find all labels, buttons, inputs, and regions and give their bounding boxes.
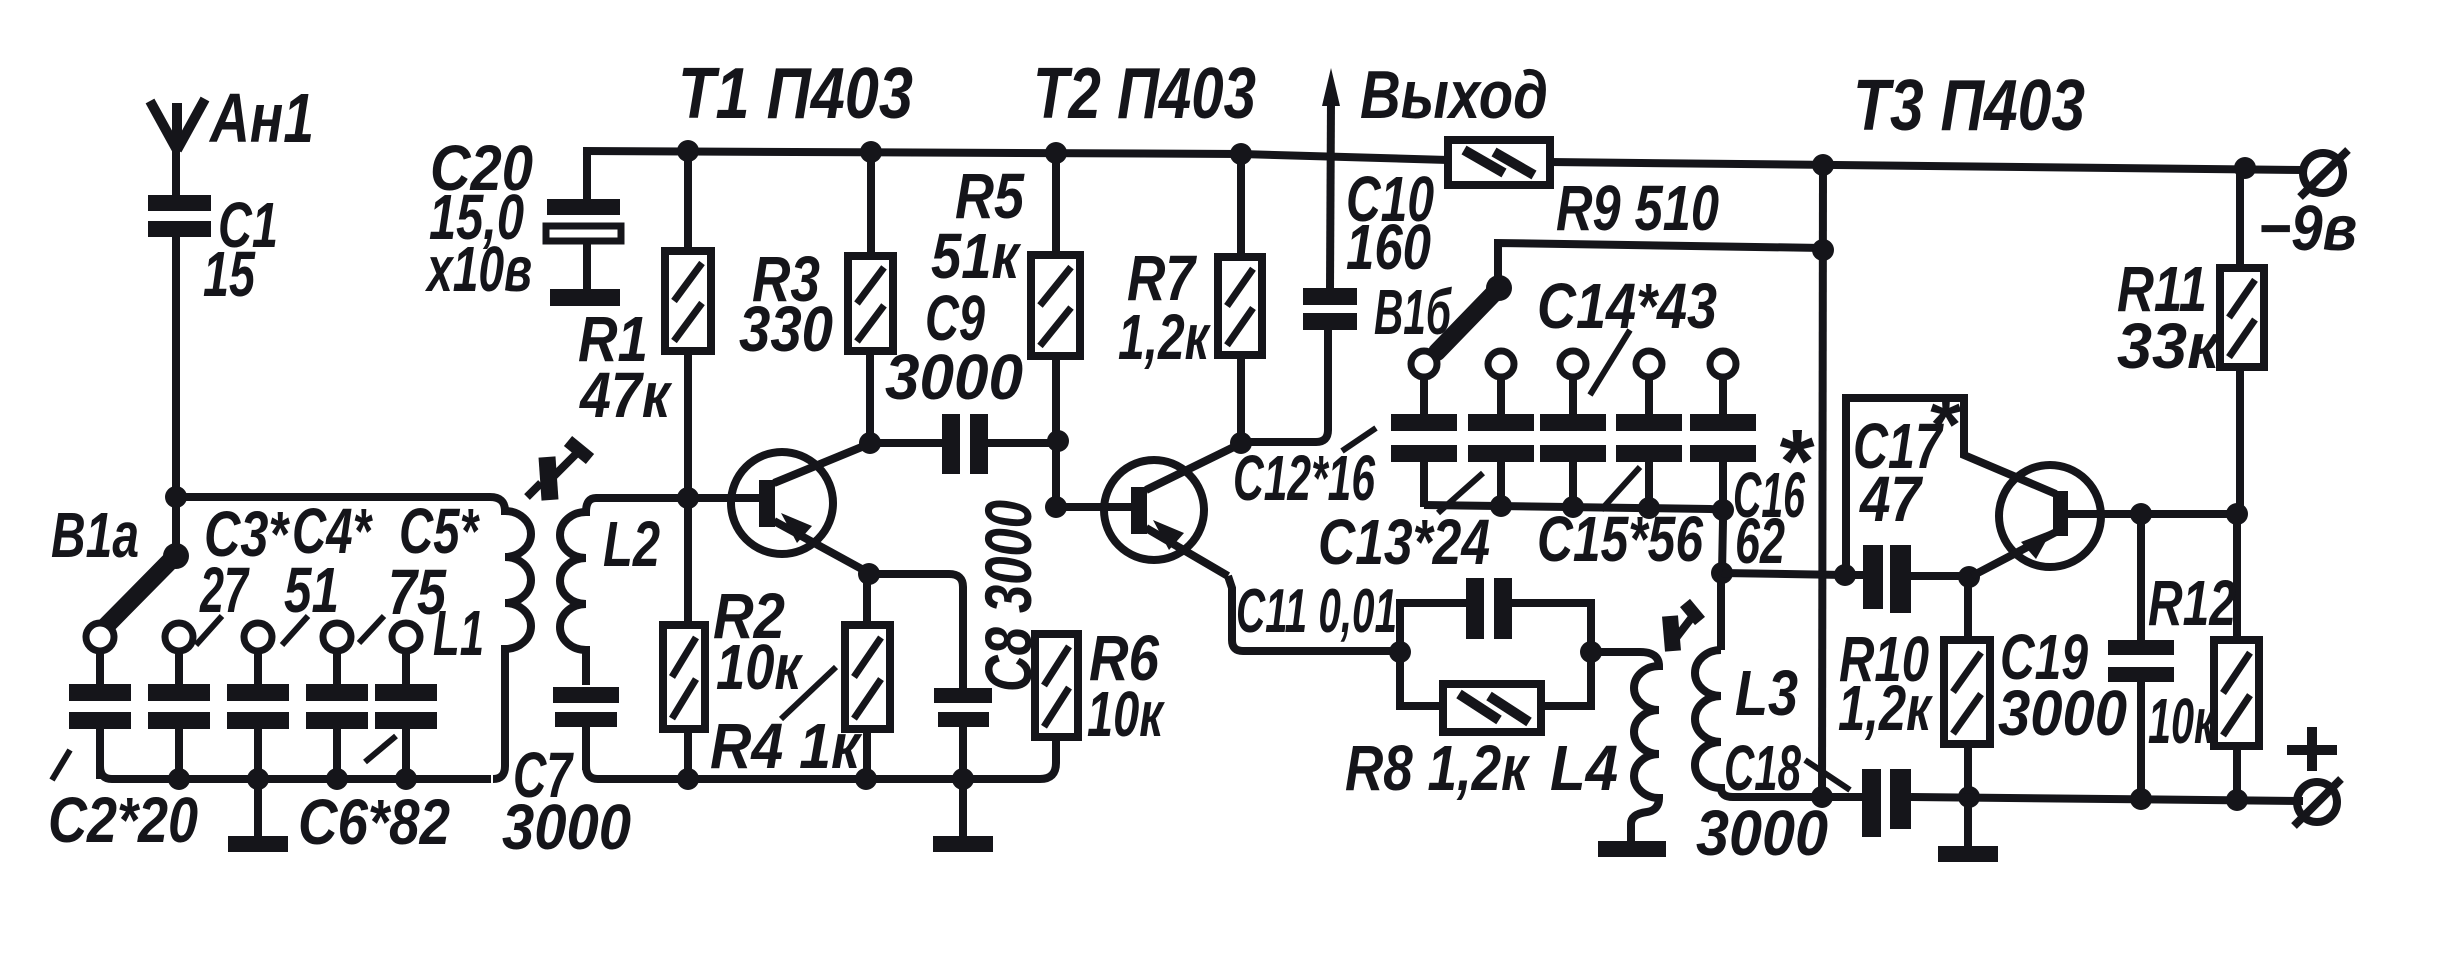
ground R10 bbox=[1938, 797, 1998, 862]
svg-text:−9в: −9в bbox=[2258, 192, 2357, 264]
svg-text:10к: 10к bbox=[2148, 685, 2217, 757]
svg-text:3000: 3000 bbox=[1998, 677, 2127, 749]
svg-text:T1 П403: T1 П403 bbox=[678, 54, 913, 134]
label R4 1к bbox=[710, 710, 863, 782]
svg-text:C2*20: C2*20 bbox=[48, 784, 198, 856]
switch B1a arm bbox=[51, 499, 176, 628]
resistor R11 33к bbox=[2117, 167, 2264, 514]
switch B1б common wire bbox=[1498, 243, 1823, 287]
svg-text:L3: L3 bbox=[1735, 657, 1798, 729]
switch B1б contact 2 bbox=[1488, 351, 1514, 377]
label C13*24 bbox=[1318, 506, 1490, 578]
node antenna/tank junction bbox=[165, 486, 187, 508]
svg-text:3000: 3000 bbox=[1696, 797, 1828, 869]
wire bottom middle rail bbox=[586, 737, 1056, 779]
output arrow Выход bbox=[1322, 57, 1548, 288]
svg-text:62: 62 bbox=[1735, 505, 1785, 577]
resistor R10 1,2к bbox=[1838, 577, 1990, 797]
wire bottom-left rail bbox=[100, 731, 491, 779]
resistor R7 1,2к bbox=[1118, 153, 1262, 443]
wire C1 to tank node bbox=[172, 235, 180, 552]
wire tank to C17 bbox=[1722, 573, 1845, 575]
capacitor C10 160 bbox=[1241, 163, 1434, 442]
svg-text:47к: 47к bbox=[578, 359, 673, 431]
resistor R3 330 bbox=[739, 151, 893, 443]
label C11 0,01 bbox=[1236, 577, 1397, 646]
capacitor C11 bbox=[1400, 578, 1591, 651]
node C11 right bbox=[1580, 641, 1602, 663]
resistor R9 510 bbox=[1448, 140, 1719, 244]
svg-text:C13*24: C13*24 bbox=[1318, 506, 1490, 578]
svg-text:160: 160 bbox=[1346, 211, 1431, 283]
leader C5 bbox=[359, 616, 384, 643]
leader C15 bbox=[1601, 467, 1640, 510]
node R4 bottom bbox=[855, 768, 877, 790]
label T2 П403 bbox=[1033, 54, 1256, 134]
capacitor C2 bbox=[69, 651, 131, 779]
wire top rail bbox=[583, 151, 2303, 170]
wire T3 base bbox=[2068, 510, 2240, 518]
inductor L3 bbox=[1695, 573, 1798, 797]
node T1 base/L2 bbox=[677, 487, 699, 509]
inductor L1 bbox=[433, 497, 531, 779]
leader C3 bbox=[196, 616, 222, 645]
switch B1a contact 3 bbox=[244, 623, 272, 651]
switch B1a contact 2 bbox=[165, 623, 193, 651]
capacitor C15 bbox=[1616, 377, 1682, 507]
antenna Ан1 bbox=[150, 79, 314, 157]
transistor T2 bbox=[1104, 444, 1240, 576]
resistor R12 10к bbox=[2148, 514, 2259, 800]
capacitor C7 3000 bbox=[502, 687, 631, 863]
svg-text:L1: L1 bbox=[433, 597, 484, 669]
svg-text:51: 51 bbox=[284, 554, 339, 626]
resistor R2 10к bbox=[663, 498, 804, 779]
label C15*56 bbox=[1537, 503, 1703, 575]
node C11 left bbox=[1389, 641, 1411, 663]
node C5 bottom bbox=[326, 768, 348, 790]
capacitor C5 bbox=[306, 651, 368, 779]
label C16* 62 bbox=[1733, 412, 1815, 577]
switch B1б contact 3 bbox=[1560, 351, 1586, 377]
node rail/B1б bbox=[1812, 154, 1834, 176]
node C9 right bbox=[1047, 430, 1069, 452]
switch B1б arm bbox=[1374, 276, 1499, 352]
capacitor C6 bbox=[375, 651, 437, 779]
leader C4 bbox=[282, 616, 308, 645]
capacitor C1 15 bbox=[148, 189, 278, 310]
capacitor C16 bbox=[1690, 377, 1756, 507]
wire T3 collector loop bbox=[1846, 398, 2056, 571]
capacitor C9 3000 bbox=[870, 160, 1056, 474]
svg-text:Выход: Выход bbox=[1360, 57, 1548, 133]
svg-text:T3 П403: T3 П403 bbox=[1853, 66, 2085, 146]
node C6 bottom bbox=[395, 768, 417, 790]
node C14 bottom bbox=[1562, 496, 1584, 518]
svg-text:C15*56: C15*56 bbox=[1537, 503, 1703, 575]
terminal -9в bbox=[2258, 150, 2357, 264]
svg-text:C11 0,01: C11 0,01 bbox=[1236, 577, 1397, 646]
node C8 bottom bbox=[952, 768, 974, 790]
label T3 П403 bbox=[1853, 66, 2085, 146]
trimmer arrow L1/L2 bbox=[527, 441, 590, 500]
resistor R6 10к bbox=[1035, 622, 1166, 750]
switch B1б contact 5 bbox=[1710, 351, 1736, 377]
node C4 bottom bbox=[247, 768, 269, 790]
svg-text:R8 1,2к: R8 1,2к bbox=[1345, 732, 1531, 804]
svg-text:T2 П403: T2 П403 bbox=[1033, 54, 1256, 134]
node R10 bottom bbox=[1958, 786, 1980, 808]
svg-text:R4 1к: R4 1к bbox=[710, 710, 863, 782]
svg-text:х10в: х10в bbox=[425, 233, 532, 305]
wire bottom right rail bbox=[1733, 797, 2303, 801]
resistor R4 1к bbox=[845, 574, 890, 779]
capacitor C18 3000 bbox=[1696, 732, 1911, 869]
node R7 rail bbox=[1230, 143, 1252, 165]
wire L2 top to T1 base bbox=[596, 494, 759, 502]
resistor R1 47к bbox=[578, 151, 711, 497]
node B1б pivot bbox=[1486, 275, 1512, 301]
node C17 left bbox=[1834, 564, 1856, 586]
transistor T3 bbox=[1972, 465, 2101, 576]
leader C6 bbox=[365, 736, 396, 762]
leader C14 bbox=[1590, 330, 1630, 395]
node B1б common bbox=[1812, 239, 1834, 261]
label C5* 75 bbox=[388, 495, 480, 628]
node C19 top bbox=[2130, 503, 2152, 525]
node C3 bottom bbox=[168, 768, 190, 790]
switch B1a contact 1 bbox=[86, 623, 114, 651]
svg-text:Ан1: Ан1 bbox=[208, 79, 314, 157]
svg-text:C6*82: C6*82 bbox=[298, 786, 450, 858]
inductor L4 bbox=[1550, 652, 1659, 841]
svg-text:*: * bbox=[1927, 380, 1962, 469]
wire bank bottom bbox=[1424, 505, 1723, 573]
leader C13 bbox=[1438, 473, 1483, 513]
capacitor C8 3000 bbox=[869, 500, 1045, 779]
svg-text:330: 330 bbox=[739, 293, 833, 365]
svg-text:R9 510: R9 510 bbox=[1556, 172, 1719, 244]
resistor R5 51к bbox=[1031, 152, 1080, 507]
svg-text:27: 27 bbox=[199, 554, 250, 626]
switch B1б contact 4 bbox=[1636, 351, 1662, 377]
label C6* 82 bbox=[298, 786, 450, 858]
switch B1a contact 4 bbox=[323, 623, 351, 651]
node C19 bottom bbox=[2130, 788, 2152, 810]
label C2* 20 bbox=[48, 784, 198, 856]
capacitor C13 bbox=[1468, 377, 1534, 507]
node R12 top bbox=[2226, 503, 2248, 525]
resistor R8 1,2к bbox=[1345, 653, 1591, 804]
inductor L2 bbox=[560, 498, 660, 685]
svg-text:R12: R12 bbox=[2148, 567, 2236, 639]
svg-text:*: * bbox=[1776, 412, 1815, 512]
node C13 bottom bbox=[1490, 495, 1512, 517]
svg-text:C12*16: C12*16 bbox=[1233, 442, 1375, 514]
terminal + bbox=[2287, 727, 2341, 826]
node R3 rail bbox=[860, 141, 882, 163]
node tank/L3 top bbox=[1711, 562, 1733, 584]
capacitor C3 bbox=[148, 651, 210, 779]
svg-text:1,2к: 1,2к bbox=[1118, 301, 1212, 373]
node C15 bottom bbox=[1638, 497, 1660, 519]
node R12 bottom bbox=[2226, 789, 2248, 811]
svg-text:10к: 10к bbox=[716, 631, 804, 703]
wire T2 emitter to C11 bbox=[1228, 576, 1400, 651]
node C16 bottom corner bbox=[1712, 499, 1734, 521]
node R5 rail bbox=[1045, 142, 1067, 164]
trimmer arrow L3/L4 bbox=[1670, 603, 1700, 651]
capacitor C12 bbox=[1391, 377, 1457, 507]
label C12*16 bbox=[1233, 442, 1375, 514]
wire antenna to C1 bbox=[172, 148, 180, 197]
capacitor C4 bbox=[227, 651, 289, 779]
svg-text:L4: L4 bbox=[1550, 732, 1618, 804]
svg-text:3000: 3000 bbox=[502, 791, 631, 863]
svg-text:3000: 3000 bbox=[885, 341, 1023, 413]
svg-text:47: 47 bbox=[1858, 463, 1924, 535]
wire tank top bbox=[176, 493, 490, 501]
leader C2 bbox=[52, 750, 70, 780]
node T1 collector bbox=[859, 432, 881, 454]
ground C8 bbox=[933, 779, 993, 852]
svg-text:15: 15 bbox=[203, 238, 256, 310]
switch B1a contact 5 bbox=[392, 623, 420, 651]
label C14*43 bbox=[1537, 270, 1717, 342]
capacitor C17 47 bbox=[1845, 380, 1966, 613]
svg-text:В1а: В1а bbox=[51, 499, 139, 571]
svg-text:10к: 10к bbox=[1087, 678, 1166, 750]
ground L4 bbox=[1598, 841, 1666, 857]
svg-text:33к: 33к bbox=[2117, 310, 2223, 382]
svg-text:В1б: В1б bbox=[1374, 276, 1453, 348]
svg-text:L2: L2 bbox=[603, 508, 660, 580]
ground left bank bbox=[228, 779, 288, 852]
node T2 base bbox=[1045, 496, 1067, 518]
svg-text:1,2к: 1,2к bbox=[1838, 672, 1934, 744]
transistor T1 bbox=[731, 444, 869, 573]
switch B1б contact 1 bbox=[1411, 351, 1437, 377]
node R2 bottom bbox=[677, 768, 699, 790]
label C3* 27 bbox=[199, 498, 290, 626]
node B1a pivot bbox=[163, 543, 189, 569]
node R1 rail bbox=[677, 140, 699, 162]
capacitor C20 15,0 x10в bbox=[425, 132, 621, 306]
capacitor C14 bbox=[1540, 377, 1606, 507]
leader C18 bbox=[1805, 760, 1850, 790]
leader C12 bbox=[1342, 428, 1376, 451]
capacitor C19 3000 bbox=[1998, 514, 2174, 799]
wire T2 base bbox=[1056, 503, 1131, 511]
node T2 collector bbox=[1230, 432, 1252, 454]
node R11 rail bbox=[2234, 157, 2256, 179]
node tank cold bottom bbox=[1811, 786, 1833, 808]
label C4* 51 bbox=[284, 495, 373, 626]
node T1 emitter bbox=[858, 563, 880, 585]
leader R4 bbox=[781, 667, 836, 719]
label T1 П403 bbox=[678, 54, 913, 134]
node T3 emitter bbox=[1958, 566, 1980, 588]
wire -9в vertical bbox=[1822, 165, 1823, 797]
